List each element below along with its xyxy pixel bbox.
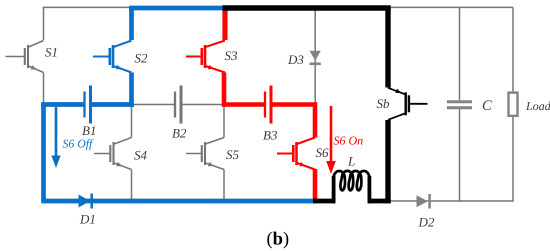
wire top rail black segment <box>222 5 390 11</box>
label S1 <box>45 48 56 57</box>
wire left rail S1 emitter to B-line <box>43 73 45 105</box>
wire top rail right gray segment <box>391 6 513 8</box>
wire S5 collector rail <box>223 105 225 138</box>
capacitor B2 <box>175 86 181 124</box>
diode D1 <box>79 194 92 209</box>
wire S4 emitter rail to bottom <box>131 170 133 202</box>
capacitor C <box>447 102 472 108</box>
label S6 <box>316 148 329 157</box>
capacitor B1 <box>85 86 91 124</box>
label S4 <box>134 151 147 160</box>
load resistor <box>509 93 518 116</box>
label S2 <box>135 54 148 63</box>
label C <box>483 100 492 110</box>
transistor S2 <box>93 41 132 73</box>
wire bottom rail right gray segment <box>391 200 513 202</box>
label B1 <box>82 126 95 135</box>
label D2 <box>418 218 434 227</box>
wire right rail black lower (Sb emitter) <box>385 120 390 203</box>
wire Load branch lower <box>512 117 514 202</box>
transistor S4 <box>94 138 132 170</box>
wire B-line blue segment B1 right <box>91 102 134 107</box>
wire B-line blue segment B1 left + left rail corner <box>44 102 85 104</box>
wire B-line red segment B3 left <box>224 102 265 107</box>
wire S2 collector rail blue <box>129 8 134 40</box>
wire top rail left gray segment <box>43 6 132 8</box>
wire Load branch upper <box>512 7 514 91</box>
label S3 <box>225 51 237 60</box>
transistor S5 <box>186 138 224 170</box>
label S6 On <box>334 137 363 145</box>
label L <box>348 157 355 166</box>
transistor S1 <box>6 41 44 73</box>
arrow S6 On (red) <box>326 106 336 174</box>
wire left rail blue lower <box>41 105 46 202</box>
wire S3 emitter rail red to B-line <box>222 73 227 107</box>
wire bottom rail blue <box>41 199 314 204</box>
wire S3 collector rail red <box>222 6 227 40</box>
wire bottom black segment left of inductor <box>313 199 335 204</box>
wire B-line B2 gray segment left <box>132 104 176 106</box>
label Sb <box>377 99 389 108</box>
label D3 <box>288 55 304 64</box>
wire S4 collector rail <box>131 105 133 138</box>
caption (b) <box>267 232 288 249</box>
label S5 <box>226 150 238 159</box>
wire S2 emitter rail blue to B-line <box>129 73 134 107</box>
wire right rail black upper (Sb collector) <box>385 8 390 88</box>
wire bottom black segment right of inductor <box>368 199 391 204</box>
transistor Sb <box>388 88 428 120</box>
label D1 <box>80 215 95 224</box>
capacitor B3 <box>265 86 271 124</box>
wire S6 emitter rail red to bottom <box>313 169 318 203</box>
transistor S3 <box>186 41 225 73</box>
label B3 <box>263 131 277 140</box>
diode D2 <box>417 194 430 209</box>
inductor L <box>334 171 370 203</box>
wire D3 branch vertical <box>314 8 316 105</box>
wire B-line B2 gray segment right <box>181 104 224 106</box>
label Load <box>526 102 550 110</box>
transistor S6 <box>277 138 315 170</box>
wire capacitor C branch lower <box>459 109 461 202</box>
arrow S6 Off (blue) <box>51 107 60 168</box>
wire left rail upper (S1 collector) <box>43 7 45 40</box>
diode D3 <box>310 51 321 64</box>
wire capacitor C branch upper <box>459 7 461 100</box>
wire top rail blue segment <box>129 6 222 11</box>
wire B-line red segment B3 right + corner down <box>271 105 315 138</box>
label B2 <box>172 129 186 138</box>
wire S5 emitter rail to bottom <box>223 170 225 202</box>
label S6 Off <box>63 139 94 150</box>
